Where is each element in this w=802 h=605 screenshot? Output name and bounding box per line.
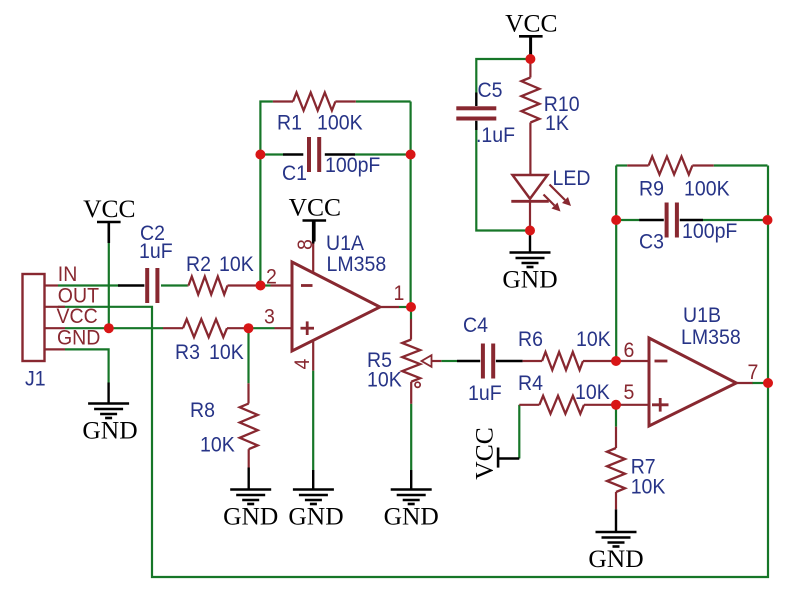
svg-text:U1B: U1B — [683, 304, 721, 327]
svg-text:8: 8 — [294, 239, 317, 250]
svg-text:GND: GND — [82, 416, 137, 445]
svg-text:C4: C4 — [463, 314, 488, 337]
svg-text:GND: GND — [288, 502, 343, 531]
svg-text:10K: 10K — [575, 381, 610, 404]
svg-text:VCC: VCC — [289, 193, 341, 222]
svg-text:OUT: OUT — [58, 285, 99, 308]
svg-text:10K: 10K — [576, 328, 611, 351]
svg-text:6: 6 — [624, 339, 635, 362]
svg-text:LM358: LM358 — [327, 253, 387, 276]
svg-text:R6: R6 — [518, 328, 543, 351]
svg-text:2: 2 — [266, 266, 277, 289]
svg-text:LM358: LM358 — [681, 326, 741, 349]
svg-text:VCC: VCC — [83, 194, 135, 223]
svg-text:GND: GND — [384, 502, 439, 531]
svg-text:100K: 100K — [684, 178, 730, 201]
svg-text:GND: GND — [223, 502, 278, 531]
svg-text:IN: IN — [58, 263, 78, 286]
svg-text:100pF: 100pF — [325, 154, 380, 177]
svg-text:R1: R1 — [277, 112, 302, 135]
svg-text:VCC: VCC — [505, 8, 557, 37]
svg-text:3: 3 — [264, 306, 275, 329]
svg-text:R8: R8 — [190, 399, 215, 422]
svg-text:VCC: VCC — [470, 427, 499, 479]
svg-text:1: 1 — [394, 282, 405, 305]
svg-text:5: 5 — [624, 381, 635, 404]
svg-text:1uF: 1uF — [468, 382, 502, 405]
svg-text:GND: GND — [57, 327, 100, 350]
svg-text:GND: GND — [588, 544, 643, 573]
svg-text:VCC: VCC — [57, 305, 98, 328]
svg-text:C3: C3 — [639, 231, 664, 254]
svg-text:100pF: 100pF — [682, 220, 737, 243]
svg-text:7: 7 — [748, 361, 759, 384]
svg-text:10K: 10K — [200, 434, 235, 457]
svg-text:10K: 10K — [209, 341, 244, 364]
svg-text:1uF: 1uF — [139, 240, 173, 263]
svg-text:.1uF: .1uF — [476, 124, 515, 147]
svg-text:U1A: U1A — [326, 232, 364, 255]
svg-text:R3: R3 — [175, 341, 200, 364]
svg-text:10K: 10K — [631, 476, 666, 499]
svg-text:10K: 10K — [367, 369, 402, 392]
svg-text:LED: LED — [553, 167, 591, 190]
svg-text:100K: 100K — [317, 112, 363, 135]
svg-text:1K: 1K — [545, 112, 569, 135]
svg-text:R4: R4 — [518, 372, 543, 395]
svg-text:J1: J1 — [25, 368, 46, 391]
svg-text:R2: R2 — [186, 253, 211, 276]
svg-text:GND: GND — [502, 265, 557, 294]
svg-text:4: 4 — [291, 359, 314, 370]
svg-text:C5: C5 — [478, 79, 503, 102]
svg-text:10K: 10K — [219, 253, 254, 276]
svg-text:R9: R9 — [639, 178, 664, 201]
svg-text:C1: C1 — [282, 162, 307, 185]
